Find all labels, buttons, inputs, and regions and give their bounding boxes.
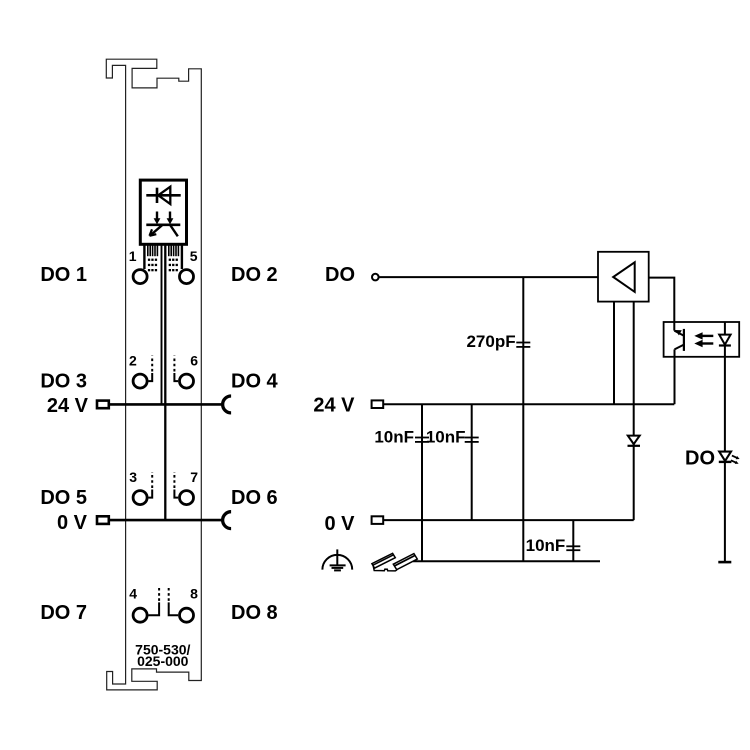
- svg-text:0 V: 0 V: [57, 512, 88, 534]
- svg-text:270pF: 270pF: [466, 332, 515, 351]
- svg-text:24 V: 24 V: [313, 395, 355, 417]
- svg-text:DO 2: DO 2: [231, 264, 278, 286]
- svg-text:DO 5: DO 5: [40, 487, 87, 509]
- svg-text:10nF: 10nF: [526, 536, 566, 555]
- svg-text:DO: DO: [325, 264, 355, 286]
- svg-text:10nF: 10nF: [426, 427, 466, 446]
- svg-text:4: 4: [129, 586, 137, 602]
- svg-text:6: 6: [190, 353, 198, 369]
- svg-text:0 V: 0 V: [324, 513, 355, 535]
- svg-text:DO: DO: [685, 447, 715, 469]
- svg-text:2: 2: [129, 353, 137, 369]
- svg-text:1: 1: [129, 248, 137, 264]
- svg-text:7: 7: [190, 469, 198, 485]
- svg-text:DO 6: DO 6: [231, 487, 278, 509]
- svg-text:025-000: 025-000: [137, 653, 189, 669]
- svg-text:DO 8: DO 8: [231, 602, 278, 624]
- svg-text:DO 4: DO 4: [231, 371, 279, 393]
- svg-text:DO 1: DO 1: [40, 264, 87, 286]
- svg-text:3: 3: [129, 469, 137, 485]
- svg-text:8: 8: [190, 586, 198, 602]
- svg-text:DO 7: DO 7: [40, 602, 87, 624]
- svg-text:DO 3: DO 3: [40, 371, 87, 393]
- svg-text:10nF: 10nF: [374, 427, 414, 446]
- svg-text:5: 5: [190, 248, 198, 264]
- svg-text:24 V: 24 V: [47, 395, 89, 417]
